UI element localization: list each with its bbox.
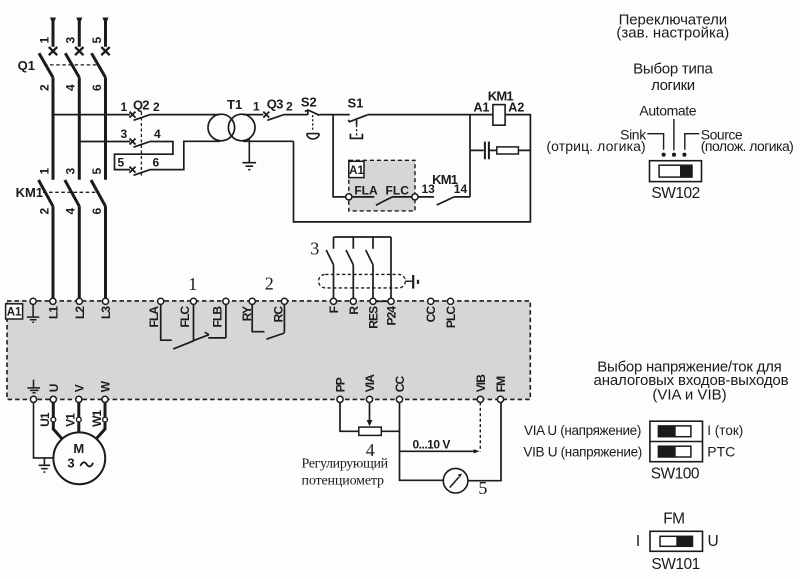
svg-text:I: I bbox=[636, 533, 640, 550]
svg-text:SW100: SW100 bbox=[651, 466, 700, 483]
svg-text:V: V bbox=[72, 384, 86, 392]
svg-text:VIB: VIB bbox=[474, 374, 488, 393]
svg-text:FLC: FLC bbox=[178, 306, 192, 328]
svg-text:4: 4 bbox=[154, 127, 161, 141]
svg-text:6: 6 bbox=[90, 208, 104, 215]
svg-text:KM1: KM1 bbox=[16, 185, 43, 200]
svg-text:1: 1 bbox=[253, 100, 260, 114]
svg-text:Q1: Q1 bbox=[18, 58, 35, 73]
svg-text:2: 2 bbox=[153, 100, 160, 114]
svg-text:PLC: PLC bbox=[444, 306, 458, 329]
svg-text:FLB: FLB bbox=[211, 306, 225, 328]
svg-text:L3: L3 bbox=[99, 306, 113, 319]
svg-text:1: 1 bbox=[37, 37, 51, 44]
svg-text:FLA: FLA bbox=[354, 183, 378, 197]
svg-text:3: 3 bbox=[64, 168, 78, 175]
svg-text:2: 2 bbox=[37, 84, 51, 91]
svg-text:Регулирующий: Регулирующий bbox=[302, 456, 389, 471]
svg-text:F: F bbox=[327, 306, 341, 313]
svg-text:Q2: Q2 bbox=[133, 98, 149, 113]
svg-text:2: 2 bbox=[37, 208, 51, 215]
svg-text:M: M bbox=[73, 441, 84, 456]
svg-text:5: 5 bbox=[90, 37, 104, 44]
svg-text:CC: CC bbox=[393, 376, 407, 393]
svg-text:Выбор типа: Выбор типа bbox=[633, 60, 713, 77]
svg-text:L2: L2 bbox=[73, 306, 87, 319]
svg-text:SW102: SW102 bbox=[651, 185, 699, 202]
svg-text:5: 5 bbox=[478, 478, 487, 498]
svg-text:W: W bbox=[99, 380, 113, 392]
svg-text:I (ток): I (ток) bbox=[707, 423, 743, 438]
svg-text:FM: FM bbox=[494, 376, 508, 392]
svg-text:T1: T1 bbox=[227, 97, 242, 112]
svg-text:6: 6 bbox=[90, 84, 104, 91]
svg-text:(полож. логика): (полож. логика) bbox=[701, 138, 794, 154]
svg-text:1: 1 bbox=[37, 168, 51, 175]
svg-text:U: U bbox=[47, 384, 61, 392]
svg-text:L1: L1 bbox=[46, 306, 60, 319]
svg-text:5: 5 bbox=[118, 156, 125, 170]
svg-text:S1: S1 bbox=[348, 96, 364, 111]
svg-text:R: R bbox=[347, 306, 361, 315]
svg-text:V1: V1 bbox=[63, 413, 77, 427]
svg-text:(отриц. логика): (отриц. логика) bbox=[546, 138, 645, 154]
svg-text:A1: A1 bbox=[474, 100, 490, 114]
svg-text:U: U bbox=[708, 533, 719, 550]
svg-text:5: 5 bbox=[90, 168, 104, 175]
svg-text:0...10 V: 0...10 V bbox=[413, 437, 451, 451]
svg-text:A1: A1 bbox=[7, 307, 22, 319]
svg-text:W1: W1 bbox=[90, 409, 104, 426]
svg-text:VIA U (напряжение): VIA U (напряжение) bbox=[524, 423, 641, 438]
svg-text:3: 3 bbox=[310, 238, 319, 258]
svg-text:3: 3 bbox=[64, 37, 78, 44]
svg-text:S2: S2 bbox=[301, 95, 317, 110]
svg-text:A2: A2 bbox=[508, 100, 524, 114]
svg-text:PTC: PTC bbox=[707, 443, 735, 459]
svg-text:CC: CC bbox=[424, 306, 438, 323]
svg-text:(зав. настройка): (зав. настройка) bbox=[616, 25, 729, 42]
svg-text:2: 2 bbox=[286, 100, 293, 114]
svg-text:4: 4 bbox=[64, 208, 78, 215]
svg-text:RC: RC bbox=[272, 306, 286, 323]
svg-text:Automate: Automate bbox=[639, 102, 696, 118]
svg-text:FLC: FLC bbox=[386, 183, 410, 197]
svg-text:1: 1 bbox=[188, 274, 197, 294]
svg-text:FM: FM bbox=[663, 510, 684, 527]
svg-text:A1: A1 bbox=[349, 165, 364, 177]
svg-text:FLA: FLA bbox=[147, 306, 161, 328]
svg-text:SW101: SW101 bbox=[651, 556, 699, 573]
svg-text:VIB U (напряжение): VIB U (напряжение) bbox=[523, 444, 642, 459]
svg-text:P24: P24 bbox=[385, 306, 399, 326]
svg-text:1: 1 bbox=[121, 100, 128, 114]
svg-text:RY: RY bbox=[240, 306, 254, 321]
svg-text:Q3: Q3 bbox=[267, 97, 283, 112]
svg-text:(VIA и VIB): (VIA и VIB) bbox=[652, 387, 726, 404]
svg-text:U1: U1 bbox=[38, 412, 52, 427]
svg-text:4: 4 bbox=[64, 84, 78, 91]
svg-text:потенциометр: потенциометр bbox=[302, 473, 385, 488]
svg-text:3: 3 bbox=[121, 127, 128, 141]
svg-text:логики: логики bbox=[651, 77, 695, 94]
svg-text:RES: RES bbox=[367, 306, 381, 329]
svg-text:6: 6 bbox=[153, 156, 160, 170]
svg-text:2: 2 bbox=[265, 274, 274, 294]
svg-text:PP: PP bbox=[334, 377, 348, 392]
svg-text:3: 3 bbox=[67, 456, 74, 471]
svg-text:VIA: VIA bbox=[363, 374, 377, 393]
svg-text:KM1: KM1 bbox=[432, 172, 458, 187]
